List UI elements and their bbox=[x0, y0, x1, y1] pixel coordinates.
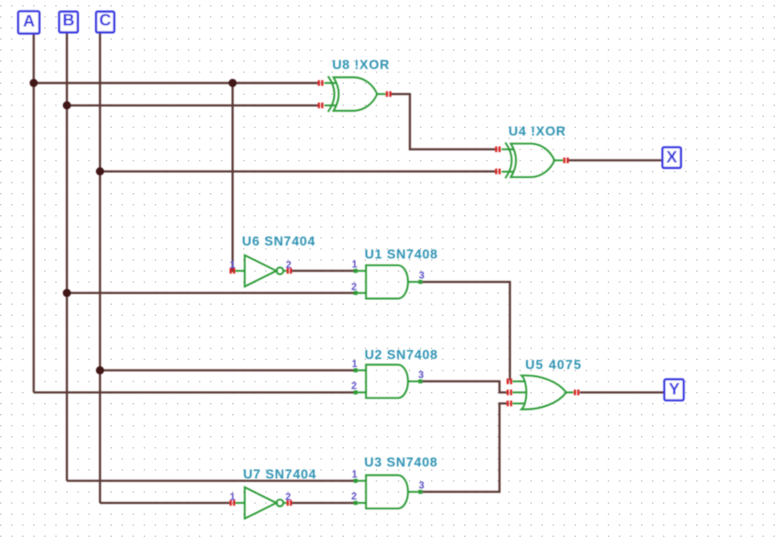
svg-text:X: X bbox=[666, 148, 677, 166]
svg-text:Y: Y bbox=[669, 381, 680, 399]
svg-text:3: 3 bbox=[419, 271, 425, 282]
svg-text:2: 2 bbox=[285, 492, 291, 503]
svg-text:2: 2 bbox=[286, 260, 292, 271]
svg-text:2: 2 bbox=[351, 381, 357, 392]
svg-text:2: 2 bbox=[351, 282, 357, 293]
svg-text:1: 1 bbox=[230, 260, 236, 271]
svg-text:3: 3 bbox=[418, 370, 424, 381]
svg-text:C: C bbox=[99, 11, 111, 29]
svg-text:U7 SN7404: U7 SN7404 bbox=[243, 467, 317, 482]
svg-text:A: A bbox=[23, 12, 35, 30]
svg-text:U5 4075: U5 4075 bbox=[525, 357, 582, 372]
svg-text:1: 1 bbox=[230, 492, 236, 503]
svg-text:U8 !XOR: U8 !XOR bbox=[332, 57, 390, 72]
svg-text:3: 3 bbox=[419, 481, 425, 492]
svg-text:1: 1 bbox=[352, 260, 358, 271]
svg-text:U3 SN7408: U3 SN7408 bbox=[364, 455, 438, 470]
svg-text:1: 1 bbox=[352, 470, 358, 481]
svg-text:U2 SN7408: U2 SN7408 bbox=[365, 347, 439, 362]
svg-text:U4 !XOR: U4 !XOR bbox=[509, 123, 567, 138]
svg-text:2: 2 bbox=[351, 492, 357, 503]
svg-text:B: B bbox=[63, 11, 75, 29]
svg-text:U1 SN7408: U1 SN7408 bbox=[365, 246, 439, 261]
svg-text:U6 SN7404: U6 SN7404 bbox=[242, 233, 316, 248]
svg-text:1: 1 bbox=[352, 359, 358, 370]
